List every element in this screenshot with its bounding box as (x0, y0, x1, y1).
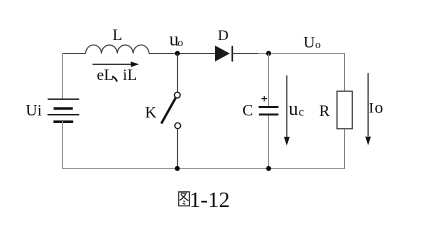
junction dot switch bottom (175, 166, 180, 171)
svg-text:o: o (375, 98, 384, 117)
svg-text:1-12: 1-12 (190, 187, 230, 212)
current arrow Io (365, 73, 383, 145)
wire bottom rail (62, 168, 345, 170)
wire capacitor branch lower (268, 116, 270, 169)
wire right rail lower (344, 129, 346, 169)
wire top right (diode to corner) (232, 53, 345, 55)
wire capacitor branch upper (268, 54, 270, 107)
caption figure number 图1-12 (179, 192, 190, 206)
voltage arrow uc (284, 75, 304, 145)
svg-text:o: o (315, 39, 321, 51)
svg-text:U: U (303, 35, 315, 52)
junction dot capacitor bottom (266, 166, 271, 171)
junction dot capacitor branch top (266, 51, 271, 56)
svg-text:I: I (369, 101, 374, 117)
wire right rail upper (344, 53, 346, 92)
diode D (215, 28, 232, 62)
resistor R (319, 91, 352, 129)
capacitor C (242, 96, 278, 120)
battery Ui (26, 99, 79, 123)
inductor L (86, 27, 149, 54)
svg-text:c: c (299, 104, 304, 118)
current arrow eL iL (93, 62, 140, 85)
svg-text:o: o (178, 37, 184, 49)
caption text 1-12 (190, 187, 230, 212)
wire top-left segment (62, 53, 86, 55)
svg-text:eL: eL (97, 67, 114, 84)
svg-text:C: C (242, 103, 253, 120)
node uo label (169, 29, 183, 50)
wire top middle (L to diode) (149, 53, 215, 55)
svg-text:L: L (113, 27, 123, 44)
svg-text:u: u (289, 99, 299, 120)
svg-text:iL: iL (123, 67, 137, 84)
svg-text:Ui: Ui (26, 102, 43, 119)
hanzi tu inner strokes (181, 192, 185, 194)
wire left rail lower (62, 121, 64, 169)
hanzi tu box (179, 192, 190, 206)
node Uo label (303, 35, 321, 52)
wire switch upper (177, 54, 179, 93)
wire left rail upper (62, 53, 64, 100)
switch K (145, 92, 181, 128)
wire switch lower (177, 129, 179, 169)
svg-text:K: K (145, 105, 157, 122)
svg-text:R: R (319, 103, 330, 120)
svg-text:D: D (218, 28, 229, 44)
junction dot node uo (175, 51, 180, 56)
